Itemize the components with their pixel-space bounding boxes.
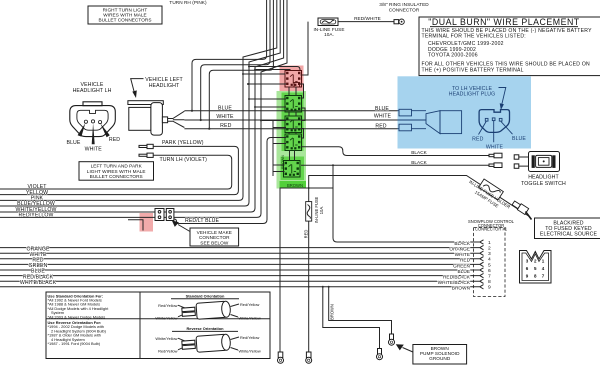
svg-text:SEE BELOW: SEE BELOW — [200, 241, 229, 246]
svg-text:BLUE: BLUE — [458, 269, 470, 274]
svg-text:CONNECTOR: CONNECTOR — [389, 7, 420, 12]
wire: bundle line 4 jog to PINK wire — [0, 0, 277, 200]
svg-text:BLACK: BLACK — [411, 150, 427, 155]
svg-text:RED: RED — [109, 137, 120, 143]
component: in-line fuse 10A (vertical) — [308, 188, 310, 352]
svg-text:WHITE: WHITE — [455, 252, 470, 257]
svg-text:*All 2003 & Newer Dodge Models: *All 2003 & Newer Dodge Models — [48, 314, 106, 319]
svg-text:RED: RED — [375, 124, 386, 130]
svg-text:BULLET CONNECTORS: BULLET CONNECTORS — [98, 18, 151, 23]
svg-text:"DUAL BURN" WIRE PLACEMENT: "DUAL BURN" WIRE PLACEMENT — [428, 17, 580, 27]
node: BLACK/RED to fused keyed source box — [535, 218, 600, 239]
wire: brown ground drop A to ring terminal 1 — [329, 287, 392, 334]
svg-text:10A.: 10A. — [319, 206, 324, 214]
svg-text:ORANGE: ORANGE — [449, 247, 470, 252]
svg-text:GROUND: GROUND — [429, 356, 451, 361]
svg-text:CONNECTOR #1: CONNECTOR #1 — [475, 227, 508, 232]
svg-text:TOGGLE SWITCH: TOGGLE SWITCH — [521, 181, 566, 187]
component: ring terminal 2 — [378, 349, 382, 355]
component: bottom ring terminal on green bus — [278, 352, 283, 358]
wire: bundle line 5 jog to BLUE/YELLOW wire — [0, 0, 280, 206]
svg-text:Red/Yellow: Red/Yellow — [240, 335, 260, 340]
svg-text:RED/YELLOW: RED/YELLOW — [18, 213, 53, 219]
svg-text:VEHICLE: VEHICLE — [81, 82, 104, 88]
wire: harness bundle line 2 to WHITE junction — [201, 0, 270, 120]
wire: BROWN wire 9 — [0, 286, 480, 288]
node: vehicle make connector box with arrow — [190, 228, 239, 246]
svg-text:TURN LH (VIOLET): TURN LH (VIOLET) — [160, 157, 208, 163]
wire: RED/LT BLUE riser to relay R4 — [174, 138, 286, 224]
svg-text:RED/LT BLUE: RED/LT BLUE — [185, 218, 220, 224]
junction dots on relay stubs — [242, 73, 244, 75]
wire: green region bottom bus — [280, 188, 333, 352]
wire: PARK (YELLOW) loop to YELLOW — [0, 146, 238, 194]
svg-text:CONNECTOR: CONNECTOR — [199, 235, 230, 240]
component: LH vehicle headlight plug — [479, 110, 509, 133]
component: in-line fuse 10A (top) — [313, 18, 344, 37]
svg-text:TURN RH (PINK): TURN RH (PINK) — [169, 0, 207, 5]
wire: WHITE headlight wire — [184, 119, 397, 121]
wire: harness bundle line 3 to RED junction — [209, 0, 273, 129]
junction dots on headlight wires — [191, 110, 193, 112]
svg-text:PARK (YELLOW): PARK (YELLOW) — [162, 140, 204, 146]
svg-text:Standard Orientation: Standard Orientation — [186, 294, 225, 299]
pointer arrows to pins: BLUE WHITE RED — [78, 123, 86, 136]
highlight: blue headlight plug region — [398, 76, 532, 148]
highlight: green relay region — [277, 91, 307, 189]
svg-text:RED: RED — [303, 230, 308, 239]
leader lines from plug pins — [479, 121, 513, 142]
svg-text:7: 7 — [488, 274, 491, 280]
svg-text:6: 6 — [488, 268, 491, 274]
wire: relay feed stub A — [249, 67, 300, 72]
component: relay R1 (red) — [285, 71, 302, 88]
svg-text:WHITE: WHITE — [374, 114, 392, 120]
component: 3/8" ring insulated connector — [379, 2, 429, 24]
svg-text:5: 5 — [488, 262, 491, 268]
svg-text:TERMINAL FOR THE VEHICLES LIST: TERMINAL FOR THE VEHICLES LISTED: — [422, 34, 526, 40]
component: headlight toggle switch — [521, 152, 566, 187]
svg-text:1: 1 — [488, 240, 491, 246]
wire: relay feed stub B — [255, 70, 290, 72]
wire: headlight pigtail fan — [168, 111, 185, 127]
wires BLUE WHITE RED inside blue region — [398, 111, 427, 129]
wire: RED headlight wire — [184, 128, 397, 130]
wire: relay R5 to black wire B — [301, 164, 492, 166]
svg-text:BULLET CONNECTORS: BULLET CONNECTORS — [90, 174, 143, 179]
node: orientation table — [46, 292, 270, 359]
component: relay R4 — [285, 134, 302, 151]
svg-text:WHITE: WHITE — [85, 146, 103, 152]
wire: bundle line 7 jog to RED/YELLOW wire — [0, 0, 287, 217]
node: DUAL BURN note box — [419, 17, 600, 76]
svg-text:White/Yellow: White/Yellow — [155, 336, 177, 341]
svg-text:BLACK: BLACK — [411, 160, 427, 165]
wire: TURN LH (VIOLET) loop to VIOLET — [0, 155, 232, 189]
component: turn LH bullet connector — [139, 153, 153, 157]
svg-text:HEADLIGHT PLUG: HEADLIGHT PLUG — [449, 92, 496, 98]
svg-text:HEADLIGHT: HEADLIGHT — [149, 83, 180, 89]
component: vehicle make connector — [128, 220, 143, 231]
node: left turn and park note box — [79, 162, 154, 181]
svg-text:GREEN: GREEN — [453, 263, 470, 268]
svg-text:RED/BLACK: RED/BLACK — [443, 275, 471, 280]
svg-text:10A.: 10A. — [324, 32, 334, 37]
wire: control harness wires 1-8 — [0, 248, 480, 282]
svg-text:3: 3 — [488, 251, 491, 257]
component: bottom ring terminal on red fuse wire — [306, 352, 311, 358]
junction dots on feed stubs — [248, 66, 250, 68]
svg-text:White/Yellow: White/Yellow — [239, 349, 261, 354]
component: relay R2 — [285, 96, 302, 113]
svg-text:LIGHT WIRES WITH MALE: LIGHT WIRES WITH MALE — [87, 169, 146, 174]
svg-text:White/Yellow: White/Yellow — [239, 316, 261, 321]
component: standard orientation connector drawing — [155, 301, 260, 321]
component: park bullet connector — [139, 144, 153, 148]
component: relay R3 — [285, 116, 302, 133]
svg-text:RED: RED — [460, 258, 471, 263]
svg-text:RED/WHITE: RED/WHITE — [354, 16, 381, 21]
svg-text:HEADLIGHT LH: HEADLIGHT LH — [73, 88, 112, 94]
svg-text:BROWN: BROWN — [287, 183, 303, 188]
svg-text:RED: RED — [220, 123, 231, 129]
component: vehicle headlight LH connector — [70, 102, 116, 137]
component: 9-pin plug connector — [520, 251, 552, 284]
wire: relay stack interconnects — [289, 87, 296, 161]
svg-text:WHITE: WHITE — [216, 114, 234, 120]
svg-text:4: 4 — [488, 257, 491, 263]
svg-text:BLUE: BLUE — [512, 136, 526, 142]
highlight: green BROWN band — [280, 181, 307, 189]
svg-text:Red/Yellow: Red/Yellow — [240, 302, 260, 307]
svg-text:THE (+) POSITIVE BATTERY TERMI: THE (+) POSITIVE BATTERY TERMINAL — [422, 67, 524, 73]
component: bullet connectors on black wires — [489, 153, 519, 168]
component: relay R5 — [284, 161, 301, 178]
node: right turn light note box — [88, 6, 162, 24]
component: in-line fuse holder 15amp (diagonal) — [479, 179, 504, 200]
component: vehicle left headlight assembly — [128, 101, 168, 135]
svg-text:WHITE/BLACK: WHITE/BLACK — [438, 280, 471, 285]
svg-text:Red/Yellow: Red/Yellow — [158, 349, 178, 354]
node: brown pump solenoid ground box with arrow — [413, 345, 467, 365]
highlight: red relay pad — [280, 66, 304, 92]
svg-text:BLUE: BLUE — [218, 106, 232, 112]
wire: brown ground drop B to ring terminal 2 — [323, 287, 380, 349]
labels: right group at connector — [438, 241, 471, 291]
svg-text:BLACK: BLACK — [454, 241, 470, 246]
wire: harness bundle line 1 to BLUE junction — [192, 0, 267, 111]
wire: relay bus vertical — [272, 121, 274, 177]
svg-text:WHITE: WHITE — [486, 144, 504, 150]
component: plug adapter trapezoid and box — [426, 111, 440, 134]
svg-text:9: 9 — [488, 285, 491, 291]
wire: relay R4 to black wire A — [301, 147, 492, 156]
svg-text:2: 2 — [488, 246, 491, 252]
wire: bundle line 6 jog to WHITE/YELLOW wire — [0, 0, 284, 212]
wire: relay left stubs — [243, 74, 286, 172]
wire: RED/WHITE to ring connector — [338, 21, 394, 23]
wire: black pin1 riser — [333, 165, 480, 242]
svg-text:*1987 - 1991 Ford (9004 Bulb): *1987 - 1991 Ford (9004 Bulb) — [48, 341, 101, 346]
component: reverse orientation connector drawing — [155, 334, 260, 354]
svg-text:BLUE: BLUE — [67, 140, 81, 146]
wire: relay R2/R3 right links — [301, 108, 305, 138]
svg-text:BROWN: BROWN — [329, 304, 334, 320]
svg-text:RED: RED — [472, 137, 483, 143]
svg-text:LEFT TURN AND PARK: LEFT TURN AND PARK — [91, 163, 143, 168]
svg-text:WHITE/BLACK: WHITE/BLACK — [20, 280, 57, 286]
svg-text:HEADLIGHT: HEADLIGHT — [528, 175, 559, 181]
wire: relay R1 right link down — [301, 84, 304, 98]
component: headlight plug terminals (left tabs) — [399, 109, 412, 131]
highlight: pink square at vehicle make connector — [140, 213, 154, 232]
wire: toggle switch leads — [519, 157, 529, 166]
component: ring terminal 1 — [390, 334, 394, 340]
wire: BLUE headlight wire — [184, 110, 397, 112]
svg-text:BROWN: BROWN — [452, 286, 470, 291]
svg-text:VEHICLE MAKE: VEHICLE MAKE — [197, 230, 232, 235]
svg-text:BLUE: BLUE — [375, 106, 389, 112]
svg-text:TOYOTA 2000-2006: TOYOTA 2000-2006 — [428, 53, 478, 59]
wire: in-line fuse feed from bundle area down to relay R1 — [301, 22, 309, 75]
wire: fuse-holder feed line and diagonal to BLACK/RED box — [309, 176, 529, 217]
svg-text:ELECTRICAL SOURCE: ELECTRICAL SOURCE — [540, 232, 598, 238]
svg-text:8: 8 — [488, 279, 491, 285]
component: snowplow control connector pins (dashed box) — [474, 228, 506, 297]
svg-text:Reverse Orientation: Reverse Orientation — [187, 326, 225, 331]
svg-text:White/Yellow: White/Yellow — [155, 316, 177, 321]
svg-text:Red/Yellow: Red/Yellow — [158, 303, 178, 308]
